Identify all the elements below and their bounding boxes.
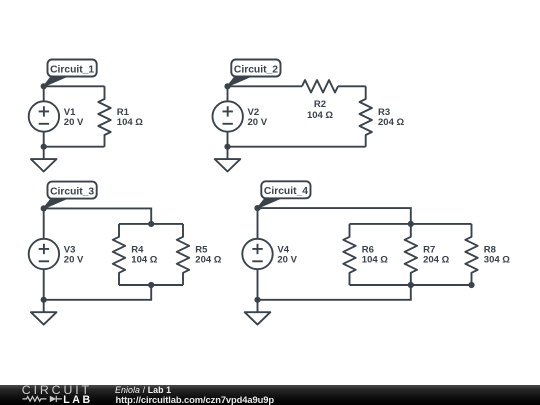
wire bottom feed circuit 3 — [44, 285, 152, 300]
voltage source V4 — [242, 239, 272, 269]
label R8 304 Ω — [484, 244, 510, 265]
label V2 20 V — [248, 107, 268, 128]
wire bottom rail circuit 4 — [350, 284, 472, 286]
wire top feed circuit 3 — [44, 208, 152, 224]
label Circuit_2 — [228, 60, 281, 87]
resistor R1 — [98, 86, 110, 146]
svg-text:LAB: LAB — [63, 394, 93, 405]
svg-text:20 V: 20 V — [248, 117, 268, 128]
wire source bottom lead V4 — [257, 269, 259, 300]
wire source bottom lead V3 — [43, 269, 45, 300]
label R5 204 Ω — [195, 244, 221, 265]
wire source top lead V2 — [227, 86, 229, 101]
resistor R7 — [405, 224, 417, 285]
wire bottom rail circuit 2 — [228, 146, 366, 148]
ground circuit 4 — [245, 300, 271, 325]
node dot rail bottom junction R8 circuit 4 — [468, 282, 474, 288]
node dot rail top junction circuit 4 — [408, 221, 414, 227]
svg-text:104 Ω: 104 Ω — [362, 255, 388, 266]
node dot bottom circuit 3 — [41, 297, 47, 303]
svg-text:104 Ω: 104 Ω — [307, 110, 333, 121]
resistor R8 — [465, 224, 477, 285]
svg-text:Circuit_1: Circuit_1 — [50, 64, 94, 75]
label V3 20 V — [64, 244, 84, 265]
ground circuit 1 — [31, 147, 57, 172]
node dot bottom circuit 1 — [41, 144, 47, 150]
voltage source V1 — [29, 101, 59, 131]
wire bottom rail circuit 3 — [119, 284, 183, 286]
wire R2 to R3 — [338, 85, 366, 87]
voltage source V2 — [213, 101, 243, 131]
wire source top lead V3 — [43, 208, 45, 238]
label R7 204 Ω — [423, 244, 449, 265]
voltage source V3 — [29, 239, 59, 269]
resistor R5 — [177, 224, 189, 285]
node dot rail top junction circuit 3 — [148, 221, 154, 227]
label R6 104 Ω — [362, 244, 388, 265]
resistor R6 — [343, 224, 355, 285]
wire source top lead V1 — [43, 86, 45, 101]
node dot bottom circuit 4 — [254, 297, 260, 303]
label R1 104 Ω — [117, 107, 143, 128]
svg-text:204 Ω: 204 Ω — [195, 255, 221, 266]
node dot rail bottom junction R7 circuit 4 — [408, 282, 414, 288]
wire source top lead V4 — [257, 208, 259, 239]
node dot top circuit 1 — [41, 83, 47, 89]
wire top feed circuit 4 — [258, 208, 411, 224]
node dot top circuit 3 — [41, 205, 47, 211]
label R4 104 Ω — [131, 244, 157, 265]
footer bar — [0, 385, 540, 405]
ground circuit 3 — [31, 300, 57, 325]
svg-text:Circuit_2: Circuit_2 — [234, 64, 278, 75]
node dot bottom circuit 2 — [224, 144, 230, 150]
CircuitLab logo — [0, 385, 110, 405]
wire source bottom lead V2 — [227, 132, 229, 147]
wire source bottom lead V1 — [43, 132, 45, 147]
wire bottom rail circuit 1 — [44, 146, 105, 148]
svg-text:304 Ω: 304 Ω — [484, 255, 510, 266]
svg-text:204 Ω: 204 Ω — [378, 117, 404, 128]
svg-text:Circuit_4: Circuit_4 — [264, 186, 308, 197]
ground circuit 2 — [215, 147, 241, 172]
svg-text:R2: R2 — [314, 99, 326, 110]
label Circuit_4 — [258, 181, 311, 208]
svg-text:20 V: 20 V — [64, 255, 84, 266]
resistor R4 — [113, 224, 125, 285]
svg-text:104 Ω: 104 Ω — [117, 117, 143, 128]
label V4 20 V — [277, 244, 297, 265]
wire top rail circuit 1 — [44, 85, 105, 87]
wire node to R2 — [228, 85, 303, 87]
node dot top circuit 4 — [254, 205, 260, 211]
author line — [115, 385, 171, 395]
svg-text:204 Ω: 204 Ω — [423, 255, 449, 266]
svg-text:20 V: 20 V — [277, 255, 297, 266]
label V1 20 V — [64, 107, 84, 128]
svg-text:20 V: 20 V — [64, 117, 84, 128]
wire top rail circuit 4 — [350, 223, 472, 225]
svg-text:104 Ω: 104 Ω — [131, 255, 157, 266]
url line — [116, 394, 275, 405]
wire bottom feed circuit 4 — [258, 285, 411, 300]
wire top rail circuit 3 — [119, 223, 183, 225]
node dot top circuit 2 — [224, 83, 230, 89]
label R2 104 Ω — [307, 99, 333, 121]
label R3 204 Ω — [378, 107, 404, 128]
label Circuit_3 — [44, 182, 97, 209]
label Circuit_1 — [44, 60, 97, 87]
resistor R2 — [302, 80, 338, 92]
svg-text:Circuit_3: Circuit_3 — [50, 186, 94, 197]
node dot rail bottom junction circuit 3 — [148, 282, 154, 288]
resistor R3 — [360, 86, 372, 146]
